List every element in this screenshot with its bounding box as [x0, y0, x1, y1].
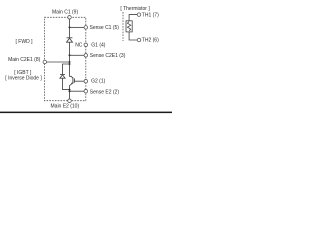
node G2 (1) terminal: [84, 79, 88, 83]
node G1 (4) terminal: [84, 43, 88, 47]
transistor IGBT Q1: [71, 77, 74, 84]
svg-text:Main C1 (9): Main C1 (9): [52, 9, 78, 15]
diode inverse D2: [60, 74, 65, 78]
svg-text:Sense E2 (2): Sense E2 (2): [90, 90, 120, 96]
junction dots: [69, 26, 71, 92]
svg-text:[ Inverse Diode ]: [ Inverse Diode ]: [5, 76, 42, 82]
wire IGBT collector: [70, 64, 73, 78]
svg-text:TH1 (7): TH1 (7): [142, 12, 159, 18]
node Sense C2E1 (3) terminal: [84, 54, 88, 58]
wire sense C1 tap: [70, 26, 85, 28]
svg-text:NC: NC: [75, 43, 83, 49]
svg-text:G2 (1): G2 (1): [91, 78, 106, 84]
node TH1 (7) terminal: [137, 13, 141, 17]
diode FWD D1: [67, 38, 73, 42]
svg-text:Main C2E1 (8): Main C2E1 (8): [8, 57, 41, 63]
wire IGBT gate lead to G2: [74, 80, 84, 82]
thermistor RT1: [126, 21, 132, 32]
wire IGBT emitter to E2: [70, 83, 73, 101]
svg-text:TH2 (6): TH2 (6): [142, 38, 159, 44]
node Main E2 (10) terminal: [68, 99, 72, 103]
thermistor enclosure dashed line: [122, 12, 124, 41]
svg-text:Sense C1 (5): Sense C1 (5): [90, 25, 120, 31]
footer rule: [0, 112, 172, 114]
wire FWD anode to mid node: [69, 42, 71, 64]
svg-text:[ FWD ]: [ FWD ]: [16, 39, 34, 45]
wire inverse diode anode down: [63, 78, 70, 90]
node Main C1 (9) terminal: [68, 16, 72, 20]
wire main C2E1: [46, 61, 69, 63]
wire thermistor to TH1: [129, 15, 137, 21]
wire sense C2E1 tap: [70, 54, 85, 56]
node Sense C1 (5) terminal: [84, 26, 88, 30]
node Sense E2 (2) terminal: [84, 89, 88, 93]
wire sense E2 tap: [70, 90, 85, 92]
node Main C2E1 (8) terminal: [43, 60, 47, 64]
svg-text:G1 (4): G1 (4): [91, 43, 106, 49]
node TH2 (6) terminal: [137, 38, 141, 42]
svg-text:[ Thermistor ]: [ Thermistor ]: [120, 6, 150, 12]
module outline dashed box: [45, 17, 86, 100]
wire thermistor to TH2: [129, 32, 137, 40]
wire main collector vertical C1: [69, 17, 71, 38]
svg-text:Sense C2E1 (3): Sense C2E1 (3): [90, 53, 126, 59]
svg-text:Main E2 (10): Main E2 (10): [51, 104, 80, 110]
wire inverse diode branch: [63, 64, 70, 74]
